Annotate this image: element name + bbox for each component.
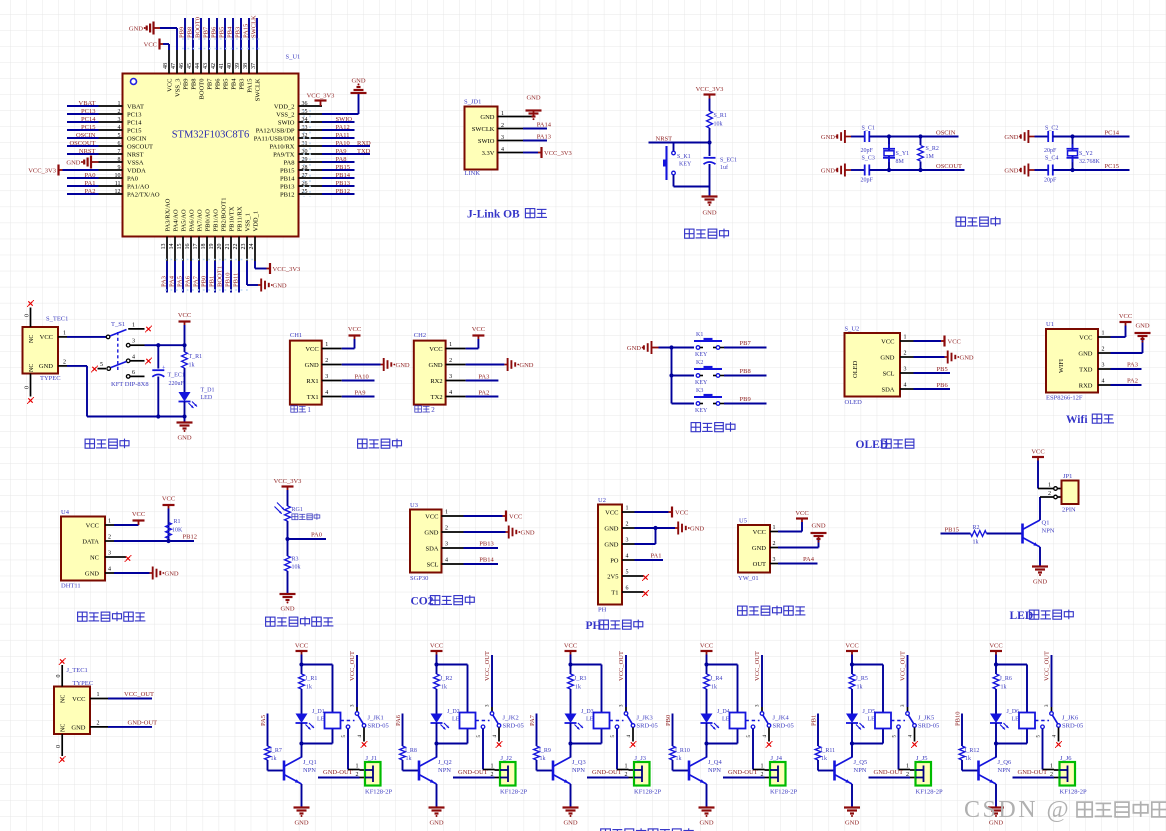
designator S_U1 <box>286 54 301 61</box>
power GND WiFi <box>1135 323 1151 343</box>
pin 4 GND U4 <box>85 567 114 578</box>
svg-text:NRST: NRST <box>79 148 96 155</box>
svg-text:TYPEC: TYPEC <box>40 375 61 382</box>
led J_D3 LED <box>565 689 599 730</box>
wire contact to J_J4 <box>747 729 770 770</box>
wire VCC_OUT relay2 <box>486 655 493 712</box>
wire PA10 <box>342 373 375 380</box>
svg-text:PA5: PA5 <box>260 715 267 726</box>
svg-text:PA2/TX/AO: PA2/TX/AO <box>127 191 160 198</box>
svg-text:CH1: CH1 <box>290 332 302 339</box>
pin 1 VCC U3 <box>425 510 463 521</box>
svg-text:VBAT: VBAT <box>79 100 96 107</box>
svg-text:PB15: PB15 <box>945 526 959 533</box>
svg-text:1M: 1M <box>926 154 935 160</box>
node GND-OUT label J_TEC1 <box>128 719 158 726</box>
wire GND-OUT J_J5 <box>869 772 916 778</box>
svg-text:SRD-05: SRD-05 <box>773 723 794 730</box>
pin 24 VDD_1 (bottom) <box>249 211 259 261</box>
svg-text:5: 5 <box>118 133 121 139</box>
svg-text:VSSA: VSSA <box>127 159 144 166</box>
svg-text:GND: GND <box>85 570 99 577</box>
svg-text:J_D1: J_D1 <box>312 709 325 715</box>
svg-text:1: 1 <box>445 510 448 516</box>
svg-text:OLED: OLED <box>852 360 859 378</box>
svg-text:GND-OUT: GND-OUT <box>592 769 622 776</box>
svg-text:GND: GND <box>351 78 365 85</box>
svg-text:4: 4 <box>501 147 504 153</box>
resistor J_R6 1k <box>993 665 1012 691</box>
svg-text:GND: GND <box>71 725 85 732</box>
svg-text:J_R11: J_R11 <box>820 748 835 754</box>
svg-text:3: 3 <box>773 557 776 563</box>
svg-text:48: 48 <box>163 63 169 69</box>
wire to RG1 <box>287 490 289 506</box>
led J_D4 LED <box>701 689 735 730</box>
wire led to node relay2 <box>434 723 467 746</box>
wire gnd bus <box>659 345 695 403</box>
wire emitter to gnd <box>1039 547 1041 567</box>
svg-text:JP1: JP1 <box>1063 473 1072 480</box>
node OSCOUT label <box>67 140 153 150</box>
svg-text:13: 13 <box>161 244 167 250</box>
wire PA3 WiFi <box>1111 368 1142 370</box>
crystal S_Y1 8M <box>883 134 909 172</box>
node PA2 label <box>67 188 160 198</box>
svg-text:PA5: PA5 <box>177 276 184 287</box>
wire VCC_OUT relay4 <box>756 655 763 712</box>
node PB5 label <box>219 18 230 90</box>
svg-text:VCC: VCC <box>162 496 175 503</box>
pin 4 relay6 x-mark <box>1053 728 1063 749</box>
wire PB7 <box>724 347 767 349</box>
svg-text:PB10: PB10 <box>225 273 232 287</box>
wire input relay3 <box>536 714 538 747</box>
svg-text:PB10/TX: PB10/TX <box>229 206 236 231</box>
svg-text:PB1/AO: PB1/AO <box>213 209 220 232</box>
svg-text:GND: GND <box>165 570 179 577</box>
pin 3 GND U2 <box>604 538 634 549</box>
wire VCC WiFi <box>1111 326 1126 338</box>
svg-text:3: 3 <box>118 117 121 123</box>
svg-text:PA7: PA7 <box>193 275 200 287</box>
wire led to node relay3 <box>568 723 601 746</box>
wire GND-OUT J_J2 <box>453 772 500 778</box>
svg-text:1: 1 <box>307 406 311 414</box>
connector JP1 2PIN body <box>1048 473 1079 514</box>
svg-text:NPN: NPN <box>303 767 316 774</box>
wire NRST <box>649 142 710 144</box>
svg-text:GND: GND <box>280 606 294 613</box>
caption PH detection module <box>586 620 643 632</box>
wire contact to J_J3 <box>611 729 634 770</box>
svg-text:NPN: NPN <box>708 767 721 774</box>
svg-text:0: 0 <box>25 386 31 389</box>
svg-text:VCC_OUT: VCC_OUT <box>484 651 491 681</box>
node PB7 label <box>740 340 752 347</box>
svg-text:LINK: LINK <box>465 170 481 177</box>
svg-text:1: 1 <box>356 764 359 770</box>
node PA5 label relay1 <box>260 715 267 726</box>
pin 1 VCC S_U2 <box>881 335 913 346</box>
caption key circuit <box>691 422 735 432</box>
svg-text:GND: GND <box>1078 350 1092 357</box>
pin 2 GND wire down <box>58 359 185 416</box>
node PA4 label <box>169 209 180 292</box>
svg-text:10: 10 <box>115 173 121 179</box>
pin 5 2V5 U2 <box>607 570 634 581</box>
svg-text:3: 3 <box>449 374 452 380</box>
power GND for S_C3 <box>821 164 851 177</box>
svg-text:39: 39 <box>235 63 241 69</box>
svg-text:44: 44 <box>195 63 201 69</box>
svg-text:J_J6: J_J6 <box>1060 755 1072 762</box>
svg-text:2: 2 <box>625 772 628 778</box>
svg-text:GND: GND <box>752 545 766 552</box>
svg-text:3: 3 <box>1102 363 1105 369</box>
node PB12 label <box>280 188 354 198</box>
resistor T_R1 1k <box>182 345 203 368</box>
svg-text:PC14: PC14 <box>1105 129 1120 136</box>
svg-text:2PIN: 2PIN <box>1062 507 1076 514</box>
svg-text:PH: PH <box>598 607 607 614</box>
svg-text:23: 23 <box>241 244 247 250</box>
node BOOT0 label <box>195 17 206 99</box>
svg-text:RX2: RX2 <box>430 378 442 385</box>
node OSCIN label <box>67 132 147 142</box>
node PB9 label <box>740 396 751 403</box>
svg-text:19: 19 <box>209 244 215 250</box>
svg-text:1: 1 <box>625 764 628 770</box>
caption temperature-humidity sensor <box>78 612 146 622</box>
svg-text:VCC: VCC <box>430 643 443 650</box>
svg-text:20pF: 20pF <box>1044 178 1057 184</box>
power VCC_3V3 at pin 24 VDD_1 <box>255 261 300 274</box>
led T_D1 LED <box>179 368 215 417</box>
wire VCC node relay2 <box>434 655 467 713</box>
svg-text:S_R1: S_R1 <box>714 113 727 119</box>
svg-text:VCC: VCC <box>753 529 766 536</box>
svg-text:PA3/RX/AO: PA3/RX/AO <box>165 198 172 231</box>
svg-text:VCC: VCC <box>1119 313 1132 320</box>
svg-text:2: 2 <box>626 522 629 528</box>
wire VCC CO2 <box>464 515 503 517</box>
svg-text:PB1: PB1 <box>811 715 818 726</box>
wire PA4 water <box>778 563 818 565</box>
connector J_TEC1 TYPEC body <box>54 667 93 734</box>
svg-text:VCC: VCC <box>425 513 438 520</box>
power VCC relay3 <box>564 643 577 655</box>
svg-text:PB2/BOOT1: PB2/BOOT1 <box>221 198 228 232</box>
svg-text:VSS_1: VSS_1 <box>245 213 252 231</box>
node PB11 label <box>233 206 244 292</box>
svg-text:GND: GND <box>521 529 535 536</box>
power VCC relay5 <box>845 643 858 655</box>
svg-text:GND: GND <box>604 541 618 548</box>
svg-text:CSDN @: CSDN @ <box>964 797 1071 823</box>
connector S_TEC1 TYPEC body <box>23 316 69 383</box>
svg-text:CH2: CH2 <box>414 332 426 339</box>
wire GND CH1 <box>342 364 381 366</box>
node NRST label <box>67 148 144 158</box>
svg-text:J_JK4: J_JK4 <box>773 715 790 722</box>
svg-text:J_J1: J_J1 <box>366 755 378 762</box>
caption relay control circuit (clipped) <box>601 828 694 831</box>
wire GND CH2 <box>466 364 505 366</box>
svg-text:VCC_OUT: VCC_OUT <box>900 651 907 681</box>
svg-text:KEY: KEY <box>695 352 708 358</box>
svg-text:PB12: PB12 <box>280 191 294 198</box>
wire collector relay5 <box>851 744 853 758</box>
svg-text:NC: NC <box>90 554 99 561</box>
led J_D1 LED <box>296 689 330 730</box>
svg-text:PC14: PC14 <box>127 119 142 126</box>
node VBAT label <box>67 100 144 110</box>
node PA8 label <box>284 156 355 166</box>
svg-text:J_R4: J_R4 <box>710 676 722 682</box>
svg-text:PC13: PC13 <box>127 111 141 118</box>
power GND for S_C2 <box>1004 130 1034 143</box>
node TXD label <box>273 148 371 158</box>
svg-text:SRD-05: SRD-05 <box>918 723 939 730</box>
wire input relay5 <box>817 714 819 747</box>
svg-text:T_EC1: T_EC1 <box>168 373 185 379</box>
resistor J_R7 1k base <box>265 746 282 762</box>
svg-text:PB0/AO: PB0/AO <box>205 209 212 232</box>
ground power-circuit <box>177 417 193 442</box>
svg-text:GND: GND <box>845 820 859 827</box>
svg-text:S_JD1: S_JD1 <box>464 99 481 106</box>
svg-text:J_R7: J_R7 <box>270 748 282 754</box>
switch T_S1 KFT DIP-8X8 <box>91 321 149 388</box>
node PB12 label <box>183 534 197 541</box>
svg-text:S_Y2: S_Y2 <box>1079 151 1093 157</box>
pushbutton K2 KEY <box>694 360 724 386</box>
capacitor S_C4 20pF <box>1044 156 1058 184</box>
svg-text:2: 2 <box>449 358 452 364</box>
pin 4 PO U2 <box>610 554 634 565</box>
wire collector relay2 <box>436 744 438 758</box>
svg-text:GND: GND <box>821 167 835 174</box>
svg-text:GND: GND <box>1135 323 1149 330</box>
svg-text:GND: GND <box>177 435 191 442</box>
power VCC LED-circuit <box>1031 449 1044 461</box>
pin 47 VSS_3 (top) <box>171 50 181 97</box>
svg-text:7: 7 <box>118 149 121 155</box>
svg-text:GND: GND <box>1004 167 1018 174</box>
node GND-OUT label relay1 <box>323 769 353 776</box>
wire RG1 to node <box>285 521 289 541</box>
svg-text:PB9: PB9 <box>183 79 190 90</box>
wire gnd to S_C1 <box>851 136 865 138</box>
node PC15 label <box>1105 163 1119 170</box>
node PC13 label <box>67 108 141 118</box>
svg-text:37: 37 <box>251 63 257 69</box>
pin 3 SDA U3 <box>425 542 463 553</box>
wire PA14 <box>510 128 548 130</box>
svg-text:4: 4 <box>1102 379 1105 385</box>
power VCC_3V3 at pin 36 VDD_2 <box>307 93 335 107</box>
svg-text:T1: T1 <box>611 589 618 596</box>
pin 3 TXD U1 <box>1079 363 1110 374</box>
svg-text:PB10: PB10 <box>955 712 962 726</box>
node GND-OUT label relay4 <box>728 769 758 776</box>
wire PA1 PH <box>635 559 664 561</box>
svg-text:6: 6 <box>626 586 629 592</box>
wire contact to J_J6 <box>1037 729 1060 770</box>
power GND J-Link <box>526 95 542 121</box>
wire VCC node relay4 <box>704 655 737 713</box>
svg-text:PB14: PB14 <box>336 172 351 179</box>
svg-text:KEY: KEY <box>695 380 708 386</box>
wire emitter relay3 <box>570 784 572 808</box>
svg-text:PA5/AO: PA5/AO <box>181 209 188 231</box>
svg-text:YW_01: YW_01 <box>738 575 759 582</box>
svg-text:SRD-05: SRD-05 <box>503 723 524 730</box>
svg-text:16: 16 <box>185 244 191 250</box>
transistor J_Q3 NPN <box>553 757 586 784</box>
svg-text:GND: GND <box>424 529 438 536</box>
caption J-Link OB interface <box>467 209 547 221</box>
power VCC_3V3 J-Link <box>538 147 572 158</box>
pin T1 x-mark <box>635 590 650 597</box>
ground light <box>280 594 296 613</box>
node PA13 label <box>537 134 551 141</box>
wire base relay2 <box>403 760 419 771</box>
relay J_JK4 SRD-05 coil <box>730 713 794 730</box>
wire gnd to S_C3 <box>851 169 865 171</box>
svg-text:PB11: PB11 <box>233 273 240 287</box>
svg-text:40: 40 <box>227 63 233 69</box>
svg-text:ESP8266-12F: ESP8266-12F <box>1046 395 1083 402</box>
svg-text:36: 36 <box>302 101 308 107</box>
svg-text:VCC: VCC <box>1031 449 1044 456</box>
node VCC_OUT label relay3 <box>618 651 625 681</box>
label serial-port 2 <box>415 406 436 414</box>
power VCC at pin 48 <box>144 39 169 51</box>
wire to GND reset <box>709 187 711 197</box>
resistor S_R2 1M <box>916 134 939 172</box>
node GND rail junction <box>182 414 186 418</box>
node PA15 label <box>243 18 254 93</box>
svg-text:RXD: RXD <box>1079 382 1093 389</box>
svg-text:S_C1: S_C1 <box>862 126 875 132</box>
pin 2 GND CH1 <box>305 358 342 369</box>
svg-text:KF128-2P: KF128-2P <box>916 789 943 796</box>
svg-text:VSS_3: VSS_3 <box>175 79 182 97</box>
svg-text:1: 1 <box>501 111 504 117</box>
node PC14 label <box>67 116 142 126</box>
svg-text:1: 1 <box>1102 331 1105 337</box>
svg-text:PC13: PC13 <box>81 108 95 115</box>
svg-text:46: 46 <box>179 63 185 69</box>
watermark CSDN <box>964 797 1166 823</box>
svg-text:GND-OUT: GND-OUT <box>458 769 488 776</box>
svg-text:PB3: PB3 <box>239 79 246 90</box>
svg-text:J_R3: J_R3 <box>574 676 586 682</box>
svg-text:GND: GND <box>519 362 533 369</box>
power GND for S_C1 <box>821 130 851 143</box>
wire PA9 <box>342 389 375 396</box>
power GND for S_C4 <box>1004 164 1034 177</box>
pin 3 SCL S_U2 <box>883 367 914 378</box>
ground LED-circuit <box>1032 567 1048 586</box>
svg-text:PA8: PA8 <box>284 159 295 166</box>
caption LED lighting circuit <box>1010 610 1074 622</box>
svg-text:T_D1: T_D1 <box>201 388 215 394</box>
ground relay6 <box>988 808 1004 827</box>
wire PB14 <box>464 563 499 565</box>
svg-text:TXD: TXD <box>1079 366 1093 373</box>
svg-text:J_J2: J_J2 <box>501 755 513 762</box>
caption CO2 detection module <box>411 595 475 607</box>
svg-text:1: 1 <box>491 764 494 770</box>
pin NC x-mark <box>114 555 131 562</box>
pin 4 SCL U3 <box>427 558 464 569</box>
pin 4 relay1 x-mark <box>358 728 368 749</box>
node PB1 label <box>209 209 220 293</box>
connector U2 PH body <box>598 497 622 614</box>
svg-text:PB6: PB6 <box>215 78 222 90</box>
svg-text:RG1: RG1 <box>292 507 303 513</box>
wire contact to J_J2 <box>477 729 500 770</box>
svg-text:GND: GND <box>396 362 410 369</box>
power VCC OLED <box>941 336 961 347</box>
svg-text:2: 2 <box>431 406 435 414</box>
pin 2 GND U5 <box>752 541 778 552</box>
connector U3 SGP30 body <box>410 502 442 582</box>
resistor J_R4 1k <box>704 665 723 691</box>
svg-text:PA7: PA7 <box>529 714 536 726</box>
svg-text:RX1: RX1 <box>306 378 318 385</box>
svg-text:S_R2: S_R2 <box>926 146 939 152</box>
pin 0 top J_TEC1 <box>56 658 66 687</box>
svg-text:J_R12: J_R12 <box>964 748 979 754</box>
svg-text:VCC: VCC <box>40 334 53 341</box>
svg-text:VCC: VCC <box>178 312 191 319</box>
svg-text:NPN: NPN <box>998 767 1011 774</box>
wire GND PH <box>635 526 676 530</box>
svg-text:GND: GND <box>305 362 319 369</box>
connector S_U2 OLED body <box>845 326 901 407</box>
svg-text:2: 2 <box>501 123 504 129</box>
resistor S_R1 10k <box>707 111 727 128</box>
pin 4 3.3V S_JD1 <box>482 147 510 157</box>
svg-text:VCC_3V3: VCC_3V3 <box>696 86 724 93</box>
node SWIO label <box>278 116 355 126</box>
wire GND-OUT J_J3 <box>587 772 634 778</box>
svg-text:3.3V: 3.3V <box>482 150 495 157</box>
svg-text:PA9/TX: PA9/TX <box>273 151 295 158</box>
svg-text:J_Q3: J_Q3 <box>572 759 586 766</box>
wire base relay4 <box>673 760 689 771</box>
svg-text:GND: GND <box>1004 134 1018 141</box>
svg-text:NPN: NPN <box>438 767 451 774</box>
wire led to node relay4 <box>704 723 737 746</box>
svg-text:PA0: PA0 <box>311 532 322 539</box>
transistor J_Q1 NPN <box>284 757 317 784</box>
svg-text:3: 3 <box>626 538 629 544</box>
svg-text:1k: 1k <box>540 756 546 762</box>
svg-text:S_EC1: S_EC1 <box>720 158 737 164</box>
wire DATA PB12 <box>114 539 194 543</box>
svg-text:4: 4 <box>108 567 111 573</box>
pin 4 RXD U1 <box>1079 379 1111 390</box>
power GND keys <box>627 341 659 354</box>
svg-text:J_Q2: J_Q2 <box>438 759 452 766</box>
pin 9 VDDA (left) <box>99 165 147 175</box>
node PB13 label <box>479 541 493 548</box>
